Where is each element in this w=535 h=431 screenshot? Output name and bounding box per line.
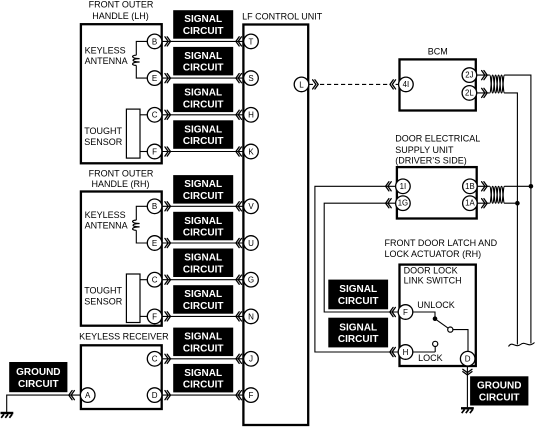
tought sensor RH xyxy=(126,274,140,323)
wire row E-S xyxy=(155,77,251,79)
svg-text:SIGNAL: SIGNAL xyxy=(184,124,222,135)
signal circuit box F switch xyxy=(328,280,388,310)
terminal N xyxy=(244,309,259,324)
svg-text:SIGNAL: SIGNAL xyxy=(184,88,222,99)
svg-text:K: K xyxy=(248,147,254,156)
chevrons at F H switch xyxy=(390,307,396,316)
wire LH antenna to B xyxy=(136,41,147,55)
svg-text:SIGNAL: SIGNAL xyxy=(184,368,222,379)
svg-text:CIRCUIT: CIRCUIT xyxy=(183,191,224,202)
chevrons after 2J 2L xyxy=(482,71,488,80)
wire sensor to C LH xyxy=(140,114,147,116)
twisted pair DESU xyxy=(490,186,505,203)
chevron at 4I xyxy=(390,80,396,89)
chevron at A xyxy=(69,391,75,400)
switch lever xyxy=(437,320,449,328)
svg-text:B: B xyxy=(152,202,157,211)
svg-text:LINK SWITCH: LINK SWITCH xyxy=(404,276,462,286)
keyless antenna coil LH xyxy=(133,55,140,65)
terminal E RH xyxy=(147,236,162,251)
svg-text:KEYLESS RECEIVER: KEYLESS RECEIVER xyxy=(79,332,169,342)
svg-text:LOCK: LOCK xyxy=(418,353,443,363)
svg-text:E: E xyxy=(152,239,157,248)
signal circuit box 2 xyxy=(173,47,233,76)
chevrons left rows xyxy=(165,37,171,46)
terminal S xyxy=(244,71,259,86)
svg-text:C: C xyxy=(152,276,158,285)
wire 2J to vertical xyxy=(477,75,531,343)
ground wire from A xyxy=(7,395,81,412)
svg-text:LOCK ACTUATOR (RH): LOCK ACTUATOR (RH) xyxy=(385,249,482,259)
ground symbol right xyxy=(461,408,474,413)
svg-text:CIRCUIT: CIRCUIT xyxy=(338,334,379,345)
switch moving contact xyxy=(448,327,453,332)
wire RH antenna to B xyxy=(136,206,147,220)
terminal 1G xyxy=(396,196,411,211)
svg-text:N: N xyxy=(248,312,254,321)
svg-text:D: D xyxy=(152,391,158,400)
wire row D-F xyxy=(155,394,251,396)
front door latch box xyxy=(400,265,476,366)
terminal 1B xyxy=(463,179,478,194)
svg-text:TOUGHT: TOUGHT xyxy=(84,285,122,295)
svg-text:1B: 1B xyxy=(465,182,475,191)
terminal H xyxy=(244,108,259,123)
terminal H switch xyxy=(398,345,413,360)
LF control unit box xyxy=(243,25,308,426)
signal circuit box 7 xyxy=(173,249,233,278)
svg-text:ANTENNA: ANTENNA xyxy=(85,221,128,231)
terminal 4I xyxy=(399,77,414,92)
svg-text:LF CONTROL UNIT: LF CONTROL UNIT xyxy=(242,12,323,22)
svg-text:SIGNAL: SIGNAL xyxy=(184,179,222,190)
svg-text:CIRCUIT: CIRCUIT xyxy=(338,296,379,307)
tought sensor LH xyxy=(126,109,140,158)
keyless receiver box xyxy=(81,345,162,409)
svg-text:SIGNAL: SIGNAL xyxy=(184,332,222,343)
svg-text:ANTENNA: ANTENNA xyxy=(85,56,128,66)
svg-text:BCM: BCM xyxy=(428,46,448,56)
signal circuit box 1 xyxy=(173,10,233,39)
svg-text:SENSOR: SENSOR xyxy=(84,137,123,147)
chevron after L xyxy=(313,80,319,89)
chevron below D xyxy=(463,369,472,375)
svg-text:B: B xyxy=(152,37,157,46)
svg-text:C: C xyxy=(152,355,158,364)
svg-text:DOOR ELECTRICAL: DOOR ELECTRICAL xyxy=(395,134,480,144)
svg-text:C: C xyxy=(152,111,158,120)
lock contact xyxy=(433,341,438,346)
chevrons at 1I 1G xyxy=(386,182,392,191)
svg-text:CIRCUIT: CIRCUIT xyxy=(183,264,224,275)
wire row E-U xyxy=(155,242,251,244)
terminal A receiver xyxy=(80,388,95,403)
signal circuit box 4 xyxy=(173,120,233,149)
terminal C receiver xyxy=(147,352,162,367)
svg-text:SIGNAL: SIGNAL xyxy=(339,284,377,295)
terminal K xyxy=(244,144,259,159)
wire row B-V xyxy=(155,205,251,207)
svg-text:KEYLESS: KEYLESS xyxy=(85,46,126,56)
svg-text:F: F xyxy=(152,147,157,156)
wire row B-T xyxy=(155,40,251,42)
svg-text:E: E xyxy=(152,74,157,83)
svg-text:1G: 1G xyxy=(398,199,408,208)
svg-text:HANDLE (RH): HANDLE (RH) xyxy=(91,179,149,189)
front outer handle LH box xyxy=(81,24,162,163)
wire H to lock xyxy=(413,351,436,353)
wire row C-J xyxy=(155,358,251,360)
svg-text:S: S xyxy=(248,74,253,83)
terminal 1I xyxy=(396,179,411,194)
BCM box xyxy=(400,59,476,110)
wire LH antenna to E xyxy=(136,65,147,78)
svg-text:1I: 1I xyxy=(400,182,407,191)
svg-text:CIRCUIT: CIRCUIT xyxy=(183,63,224,74)
svg-text:H: H xyxy=(403,348,409,357)
svg-text:SIGNAL: SIGNAL xyxy=(339,322,377,333)
terminal J xyxy=(244,352,259,367)
door electrical supply unit box xyxy=(397,167,477,218)
svg-text:J: J xyxy=(249,355,253,364)
terminal F RH xyxy=(147,309,162,324)
terminal 2J xyxy=(462,68,477,83)
signal circuit box 3 xyxy=(173,84,233,113)
signal circuit box 9 xyxy=(173,328,233,357)
wire row C-G xyxy=(155,279,251,281)
svg-text:CIRCUIT: CIRCUIT xyxy=(183,343,224,354)
svg-text:SENSOR: SENSOR xyxy=(84,296,123,306)
wire row F-N xyxy=(155,315,251,317)
dashed wire L to 4I xyxy=(320,83,389,85)
svg-text:F: F xyxy=(249,391,254,400)
chevrons after 1B 1A xyxy=(482,182,488,191)
keyless antenna coil RH xyxy=(133,220,140,230)
svg-text:F: F xyxy=(152,312,157,321)
svg-text:CIRCUIT: CIRCUIT xyxy=(479,393,520,404)
terminal 2L xyxy=(462,86,477,101)
svg-text:CIRCUIT: CIRCUIT xyxy=(18,379,59,390)
svg-text:KEYLESS: KEYLESS xyxy=(85,210,126,220)
svg-text:CIRCUIT: CIRCUIT xyxy=(183,26,224,37)
twisted pair BCM xyxy=(490,75,505,93)
svg-text:1A: 1A xyxy=(465,199,475,208)
terminal B RH xyxy=(147,199,162,214)
wire 2L to vertical xyxy=(477,93,518,345)
wire contact to D xyxy=(453,330,468,352)
terminal L xyxy=(294,77,313,92)
switch common dot xyxy=(433,316,438,321)
svg-text:UNLOCK: UNLOCK xyxy=(417,300,455,310)
svg-text:CIRCUIT: CIRCUIT xyxy=(183,301,224,312)
ground circuit box right xyxy=(470,376,528,405)
svg-text:SIGNAL: SIGNAL xyxy=(184,289,222,300)
terminal T xyxy=(244,34,259,49)
svg-text:F: F xyxy=(403,308,408,317)
wire row C-H xyxy=(155,114,251,116)
svg-text:L: L xyxy=(299,80,304,89)
wire D to ground xyxy=(466,366,468,407)
terminal C LH xyxy=(147,108,162,123)
svg-text:SIGNAL: SIGNAL xyxy=(184,253,222,264)
svg-text:SIGNAL: SIGNAL xyxy=(184,14,222,25)
svg-text:SUPPLY UNIT: SUPPLY UNIT xyxy=(395,145,454,155)
signal circuit box H switch xyxy=(328,318,388,348)
svg-text:GROUND: GROUND xyxy=(477,381,521,392)
svg-text:H: H xyxy=(248,111,254,120)
wire sensor to F RH xyxy=(140,315,147,317)
svg-text:V: V xyxy=(248,202,254,211)
junction dot 2L-1A xyxy=(515,201,520,206)
terminal 1A xyxy=(463,196,478,211)
svg-text:D: D xyxy=(465,355,471,364)
signal circuit box 6 xyxy=(173,212,233,241)
ground circuit box left xyxy=(9,362,67,392)
front outer handle RH box xyxy=(81,192,162,326)
svg-text:DOOR LOCK: DOOR LOCK xyxy=(404,266,458,276)
svg-text:TOUGHT: TOUGHT xyxy=(84,126,122,136)
junction dot 2J-1B xyxy=(529,184,534,189)
svg-text:T: T xyxy=(249,37,254,46)
terminal V xyxy=(244,199,259,214)
terminal D receiver xyxy=(147,388,162,403)
svg-text:A: A xyxy=(85,391,91,400)
wire F to common xyxy=(413,312,435,319)
wire break wave xyxy=(509,343,535,347)
terminal B LH xyxy=(147,34,162,49)
ground symbol left xyxy=(1,413,14,418)
wire sensor to F LH xyxy=(140,151,147,153)
signal circuit box 8 xyxy=(173,285,233,314)
wire lock contact stub xyxy=(434,347,436,353)
terminal F LF xyxy=(244,388,259,403)
svg-text:CIRCUIT: CIRCUIT xyxy=(183,136,224,147)
signal circuit box 5 xyxy=(173,175,233,204)
terminal G xyxy=(244,272,259,287)
wire 1A to junction xyxy=(477,202,517,204)
svg-text:U: U xyxy=(248,239,254,248)
svg-text:G: G xyxy=(248,276,254,285)
wire row F-K xyxy=(155,151,251,153)
svg-text:HANDLE (LH): HANDLE (LH) xyxy=(92,11,149,21)
svg-text:CIRCUIT: CIRCUIT xyxy=(183,99,224,110)
wire sensor to C RH xyxy=(140,279,147,281)
svg-text:FRONT OUTER: FRONT OUTER xyxy=(89,168,154,178)
svg-text:(DRIVER’S SIDE): (DRIVER’S SIDE) xyxy=(395,155,467,165)
terminal F LH xyxy=(147,144,162,159)
svg-text:FRONT DOOR LATCH AND: FRONT DOOR LATCH AND xyxy=(385,238,498,248)
svg-text:FRONT OUTER: FRONT OUTER xyxy=(89,0,154,10)
terminal D xyxy=(460,351,475,366)
svg-text:CIRCUIT: CIRCUIT xyxy=(183,380,224,391)
svg-text:SIGNAL: SIGNAL xyxy=(184,51,222,62)
terminal U xyxy=(244,236,259,251)
wire RH antenna to E xyxy=(136,230,147,243)
wire 1B to junction xyxy=(477,185,531,187)
svg-text:SIGNAL: SIGNAL xyxy=(184,216,222,227)
terminal E LH xyxy=(147,71,162,86)
terminal C RH xyxy=(147,272,162,287)
svg-text:2J: 2J xyxy=(465,71,473,80)
wire 1G to F switch xyxy=(324,203,398,312)
terminal F switch xyxy=(398,305,413,320)
svg-text:GROUND: GROUND xyxy=(16,367,60,378)
svg-text:CIRCUIT: CIRCUIT xyxy=(183,228,224,239)
signal circuit box 10 xyxy=(173,364,233,393)
svg-text:2L: 2L xyxy=(465,88,474,97)
svg-text:4I: 4I xyxy=(403,80,410,89)
wire 1I to H switch xyxy=(315,186,398,352)
